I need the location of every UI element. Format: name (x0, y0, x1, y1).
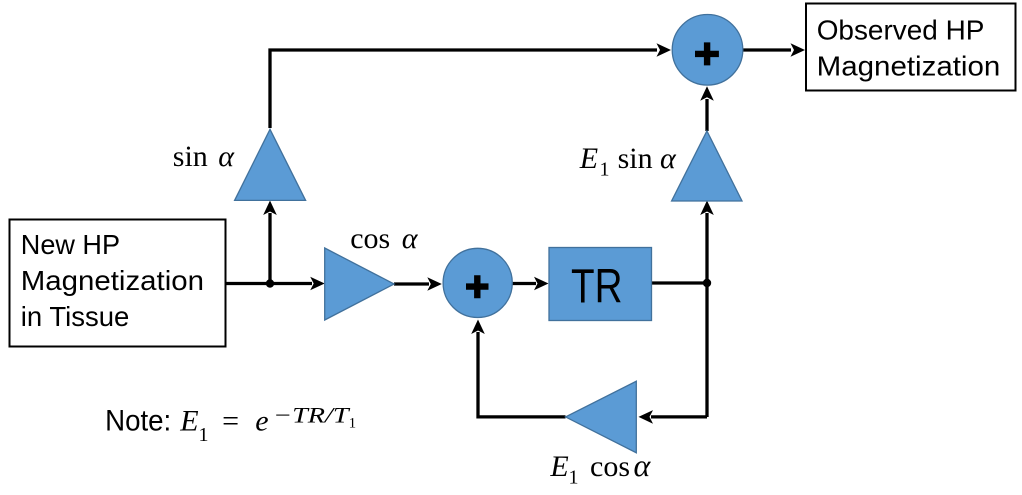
wire: E1-sin-alpha tip up into summer S1 (700, 86, 714, 131)
summer S1: circle with plus (top) (672, 15, 743, 86)
svg-text:E: E (549, 450, 568, 483)
wire: E1-cos-alpha tip left then up into summer S2 (471, 320, 565, 417)
svg-text:1: 1 (349, 415, 357, 431)
svg-text:sin: sin (618, 142, 653, 175)
wire: summer S1 to Observed box (743, 43, 805, 57)
svg-text:E: E (179, 405, 198, 438)
gain triangle: sin alpha (pointing up) (235, 129, 306, 200)
wire: summer S2 to TR block (512, 277, 549, 291)
label: sin alpha (173, 140, 235, 173)
gain triangle: cos alpha (pointing right) (325, 248, 394, 320)
svg-text:cos: cos (350, 222, 390, 255)
svg-text:Magnetization: Magnetization (817, 51, 1001, 82)
gain triangle: E1 cos alpha (pointing left) (566, 381, 637, 453)
svg-text:cos: cos (590, 450, 630, 483)
label: cos alpha (350, 222, 419, 255)
gain triangle: E1 sin alpha (pointing up) (672, 131, 742, 201)
svg-text:E: E (579, 142, 598, 175)
svg-text:α: α (218, 140, 235, 173)
svg-text:sin: sin (173, 140, 208, 173)
wire: feedback row left into E1-cos-alpha gain (639, 410, 708, 424)
svg-text:=: = (222, 405, 239, 438)
svg-text:1: 1 (569, 467, 579, 489)
svg-text:Magnetization: Magnetization (21, 265, 204, 296)
wire: TR output junction up into E1-sin-alpha base (700, 201, 714, 284)
junction dot: input branch (266, 279, 274, 287)
summer S2: circle with plus (middle) (443, 248, 512, 317)
svg-text:1: 1 (600, 159, 610, 181)
block TR (549, 248, 652, 321)
svg-text:Observed HP: Observed HP (817, 15, 985, 46)
junction dot: TR output branch (703, 279, 711, 287)
label: E1 sin alpha (579, 142, 677, 181)
svg-text:New HP: New HP (21, 229, 120, 260)
output block: Observed HP Magnetization (806, 4, 1016, 91)
input block: New HP Magnetization in Tissue (10, 220, 226, 347)
wire: sin-alpha output up and across top to summer S1 (270, 43, 671, 128)
svg-text:1: 1 (199, 424, 209, 446)
note equation: Note: E1 = e^-TR/T1 (105, 402, 356, 446)
wire: cos-alpha tip to summer S2 (394, 277, 442, 291)
svg-text:α: α (402, 222, 419, 255)
wire: input junction up into sin-alpha base (263, 201, 277, 284)
svg-text:TR: TR (571, 261, 623, 314)
svg-text:in Tissue: in Tissue (21, 301, 130, 332)
wire: TR output right then down to feedback row (651, 283, 707, 417)
wire: New-HP box to cos-alpha gain (226, 277, 325, 291)
svg-text:α: α (660, 142, 677, 175)
svg-text:e: e (255, 405, 268, 438)
label: E1 cos alpha (549, 447, 651, 489)
svg-text:−TR/T: −TR/T (273, 402, 351, 427)
svg-text:Note:: Note: (105, 405, 171, 438)
svg-text:α: α (634, 447, 652, 483)
